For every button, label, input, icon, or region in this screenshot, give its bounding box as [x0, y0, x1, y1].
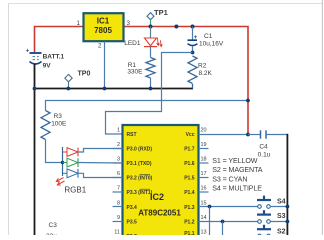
svg-text:22u: 22u: [46, 233, 57, 235]
LED LED1: [144, 38, 162, 47]
svg-text:S3 = CYAN: S3 = CYAN: [212, 175, 247, 183]
junction C1 on +9V rail: [191, 25, 195, 29]
label 0.1u: [258, 152, 271, 159]
svg-text:P1.6: P1.6: [184, 161, 195, 167]
svg-text:S4: S4: [277, 198, 286, 205]
wire R1 to ground bus: [150, 78, 152, 89]
svg-text:14: 14: [201, 215, 207, 221]
wire rail to C1 plus: [192, 27, 194, 41]
IC2 pin 7 P3.3: [113, 186, 153, 197]
svg-text:15: 15: [201, 200, 207, 206]
svg-text:19: 19: [201, 142, 207, 148]
svg-text:P3.4: P3.4: [127, 205, 138, 211]
svg-text:1: 1: [77, 20, 81, 27]
svg-text:S4 = MULTIPLE: S4 = MULTIPLE: [212, 185, 262, 193]
svg-text:Vcc: Vcc: [186, 132, 195, 138]
svg-text:P1.1: P1.1: [184, 231, 195, 235]
pin number 1 (IC1 input): [77, 20, 81, 27]
svg-text:2: 2: [98, 43, 102, 50]
legend S1 = YELLOW: [212, 157, 258, 165]
svg-text:S2 = MAGENTA: S2 = MAGENTA: [212, 166, 262, 174]
microcontroller IC2 AT89C2051: [123, 125, 199, 240]
junction +5V wire on red rail: [246, 99, 250, 103]
label R3: [54, 113, 63, 120]
label 8.2K: [199, 70, 213, 77]
junction node A on +9V rail: [174, 25, 178, 29]
svg-text:P1.5: P1.5: [184, 176, 195, 182]
wire pin14 to switch S3: [199, 221, 258, 223]
svg-text:P3.3 (INT1): P3.3 (INT1): [127, 190, 153, 196]
RGB LED RGB1 common anode bus: [62, 147, 64, 176]
RGB1 red chip: [63, 148, 79, 157]
wire R2 to ground bus: [192, 84, 194, 89]
svg-text:16: 16: [201, 186, 207, 192]
wire LED1 cathode to R1: [150, 47, 152, 58]
svg-text:13: 13: [201, 230, 207, 236]
svg-text:TP0: TP0: [78, 71, 91, 78]
svg-text:S1 = YELLOW: S1 = YELLOW: [212, 157, 258, 165]
svg-text:8: 8: [117, 200, 120, 206]
wire RGB1 red cathode to pin2: [78, 149, 123, 153]
wire 7805 output +9V rail (red): [124, 27, 249, 135]
svg-text:P1.4: P1.4: [184, 190, 195, 196]
label 9V: [43, 62, 52, 69]
svg-text:11: 11: [114, 230, 120, 236]
label C3 value (clipped): [46, 233, 57, 240]
resistor R2: [188, 56, 197, 84]
IC2 pin 15 P1.3: [184, 200, 206, 211]
junction R3/RGB1 bus: [61, 161, 64, 164]
svg-text:AT89C2051: AT89C2051: [138, 208, 181, 217]
label 100E: [51, 120, 67, 127]
test point TP0: [65, 74, 72, 88]
junction TP0/ground bus: [66, 87, 70, 91]
IC2 pin 6 P3.2: [113, 171, 153, 182]
IC2 pin 13 P1.1: [184, 230, 206, 237]
pin number 3 (IC1 output): [127, 20, 131, 27]
svg-text:LED1: LED1: [124, 40, 141, 47]
svg-text:17: 17: [201, 171, 207, 177]
svg-text:3: 3: [117, 157, 120, 163]
label BATT.1: [43, 53, 65, 60]
svg-text:IC1: IC1: [97, 17, 110, 26]
svg-text:18: 18: [201, 157, 207, 163]
legend S2 = MAGENTA: [212, 166, 262, 174]
ground rail right (black): [286, 134, 288, 235]
RGB1 blue chip: [63, 169, 79, 178]
RGB1 green chip: [63, 158, 79, 167]
IC2 pin 11 P3.7: [114, 230, 137, 240]
junction on pin14 wire: [221, 220, 225, 224]
label 330E: [127, 68, 143, 75]
wire RGB1 blue cathode to pin6: [78, 173, 123, 177]
legend S3 = CYAN: [212, 175, 247, 183]
battery BATT.1 9V: [26, 48, 42, 64]
wire Vcc pin20 to C4 node: [199, 134, 249, 136]
IC2 pin 16 P1.4: [184, 186, 208, 197]
svg-text:330E: 330E: [127, 68, 143, 75]
junction TP1/LED1 on +9V rail: [149, 25, 153, 29]
wire stub down from pin14 junction: [222, 222, 224, 236]
IC2 pin 2 P3.0: [113, 142, 153, 153]
capacitor C1 (electrolytic): [188, 35, 198, 53]
svg-text:7805: 7805: [94, 26, 112, 35]
label S3: [277, 213, 286, 220]
switch S3: [257, 210, 287, 223]
switch S4: [257, 196, 287, 209]
test point TP1: [147, 13, 154, 27]
svg-text:10u,16V: 10u,16V: [199, 41, 224, 48]
svg-text:9: 9: [117, 215, 120, 221]
svg-text:100E: 100E: [51, 120, 67, 127]
svg-text:20: 20: [201, 127, 207, 133]
junction S4/ground rail: [286, 205, 290, 209]
label S4: [277, 198, 286, 205]
IC2 pin 1 RST: [117, 127, 137, 138]
svg-text:C4: C4: [259, 144, 268, 151]
wire RST net from C1/R2 to IC2 pin1: [106, 53, 193, 135]
label C1: [204, 33, 213, 40]
capacitor C4: [248, 130, 287, 138]
svg-text:S2: S2: [277, 229, 286, 235]
label R2: [198, 63, 207, 70]
wire R3 to RGB1 common anode: [46, 140, 63, 163]
junction S3/ground rail: [286, 220, 290, 224]
resistor R1: [146, 58, 155, 78]
IC2 pin 20 Vcc: [186, 127, 207, 138]
junction IC1 gnd/ground bus: [103, 87, 107, 91]
label TP1: [154, 8, 168, 17]
wire pin15 to switch S4: [199, 206, 258, 208]
ground bus horizontal (black): [35, 88, 194, 90]
label TP0: [78, 71, 91, 78]
IC2 pin 8 P3.4: [113, 200, 138, 211]
wire IC1 gnd to ground bus (blue): [104, 41, 106, 88]
wire rail to LED1 anode: [150, 27, 152, 39]
junction on pin15 wire: [208, 205, 212, 209]
svg-text:+: +: [26, 48, 30, 54]
svg-text:7: 7: [117, 186, 120, 192]
junction battery/ground bus: [33, 87, 37, 91]
IC2 pin 3 P3.1: [113, 157, 152, 168]
IC2 pin 9 P3.5: [113, 215, 138, 226]
label S2: [277, 229, 286, 236]
RGB1 emission arrows: [56, 178, 64, 186]
svg-text:8.2K: 8.2K: [199, 70, 213, 77]
legend S4 = MULTIPLE: [212, 185, 262, 193]
label C4: [259, 144, 268, 151]
+5V distribution wire to R3 (blue): [46, 101, 249, 111]
svg-text:1: 1: [117, 127, 120, 133]
svg-text:3: 3: [127, 20, 131, 27]
IC2 pin 18 P1.6: [184, 157, 208, 168]
svg-text:P1.7: P1.7: [184, 146, 195, 152]
label 10u,16V: [199, 41, 224, 48]
IC2 pin 19 P1.7: [184, 142, 208, 153]
svg-text:C3: C3: [49, 222, 58, 229]
svg-text:P3.2 (INT0): P3.2 (INT0): [127, 176, 153, 182]
svg-text:6: 6: [117, 171, 120, 177]
svg-text:RST: RST: [127, 132, 137, 138]
label R1: [128, 62, 137, 69]
svg-text:P1.2: P1.2: [184, 219, 195, 225]
label RGB1: [64, 185, 86, 194]
switch S2: [257, 225, 271, 238]
svg-text:P3.0 (RXD): P3.0 (RXD): [127, 146, 153, 152]
junction C1/R2/RST node: [191, 51, 195, 55]
wire battery minus down (black): [34, 64, 36, 235]
svg-text:S3: S3: [277, 213, 286, 220]
svg-text:TP1: TP1: [154, 8, 168, 17]
wire RGB1 green cathode to pin3: [78, 162, 123, 165]
svg-text:2: 2: [117, 142, 120, 148]
junction rail/Vcc/C4: [246, 133, 250, 137]
svg-text:BATT.1: BATT.1: [43, 53, 65, 60]
svg-text:C1: C1: [204, 33, 213, 40]
svg-text:P3.7: P3.7: [127, 234, 138, 235]
IC2 pin 14 P1.2: [184, 215, 206, 226]
svg-text:9V: 9V: [43, 62, 52, 69]
svg-text:P1.3: P1.3: [184, 205, 195, 211]
label LED1: [124, 40, 141, 47]
label C3: [49, 222, 58, 229]
svg-text:R3: R3: [54, 113, 63, 120]
svg-text:RGB1: RGB1: [64, 185, 86, 194]
svg-text:0.1u: 0.1u: [258, 152, 271, 159]
wire battery plus to 7805 input (red): [35, 27, 84, 53]
resistor R3: [41, 111, 50, 140]
wire stub down from pin15 junction: [209, 207, 211, 236]
svg-text:P3.5: P3.5: [127, 219, 138, 225]
pin number 2 (IC1 gnd): [98, 43, 102, 50]
svg-text:P3.1 (TXD): P3.1 (TXD): [127, 161, 152, 167]
IC2 pin 17 P1.5: [184, 171, 208, 182]
svg-text:R2: R2: [198, 63, 207, 70]
regulator IC1 7805: [84, 13, 124, 41]
junction R1/ground bus: [149, 87, 153, 91]
